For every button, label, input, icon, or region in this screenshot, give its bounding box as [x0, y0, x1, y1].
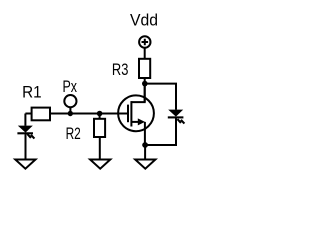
LED D1 [17, 126, 34, 139]
wire Vdd to R3 [144, 48, 146, 59]
svg-text:R1: R1 [22, 83, 41, 101]
transistor Q1 body [118, 95, 154, 131]
node junction below R3 [142, 81, 148, 87]
svg-text:Vdd: Vdd [130, 11, 158, 29]
ground (LED1) [15, 160, 35, 169]
node source junction [142, 142, 148, 148]
LED D2 [168, 110, 185, 124]
wire R2 stub [99, 114, 101, 119]
power symbol Vdd [139, 36, 150, 47]
resistor R3 [139, 59, 150, 78]
ground (R2) [90, 160, 110, 169]
wire R2 to ground [99, 137, 101, 160]
wire junction to LED2 [145, 84, 176, 110]
wire Px stub [69, 107, 71, 113]
node R2 junction [97, 111, 103, 117]
svg-text:Px: Px [63, 78, 78, 96]
resistor R1 [32, 108, 50, 121]
wire LED1 to ground [25, 134, 27, 159]
node Px junction [68, 111, 73, 116]
wire R3 to drain [144, 78, 146, 102]
ground (source) [135, 160, 155, 169]
wire R1 left to LED1 [25, 114, 31, 126]
svg-text:R2: R2 [66, 125, 81, 143]
svg-text:R3: R3 [112, 61, 128, 79]
pin Px circle [64, 95, 76, 107]
wire source node to ground [144, 145, 146, 160]
transistor Q1 drain stub [131, 84, 144, 103]
transistor Q1 source arrow [131, 118, 145, 125]
resistor R2 [94, 119, 105, 137]
wire source lead [144, 122, 146, 145]
transistor Q1 channel bar [130, 101, 132, 126]
wire R1 to gate [50, 113, 128, 115]
transistor Q1 gate bar [127, 105, 129, 123]
wire LED2 to source node [145, 118, 176, 145]
